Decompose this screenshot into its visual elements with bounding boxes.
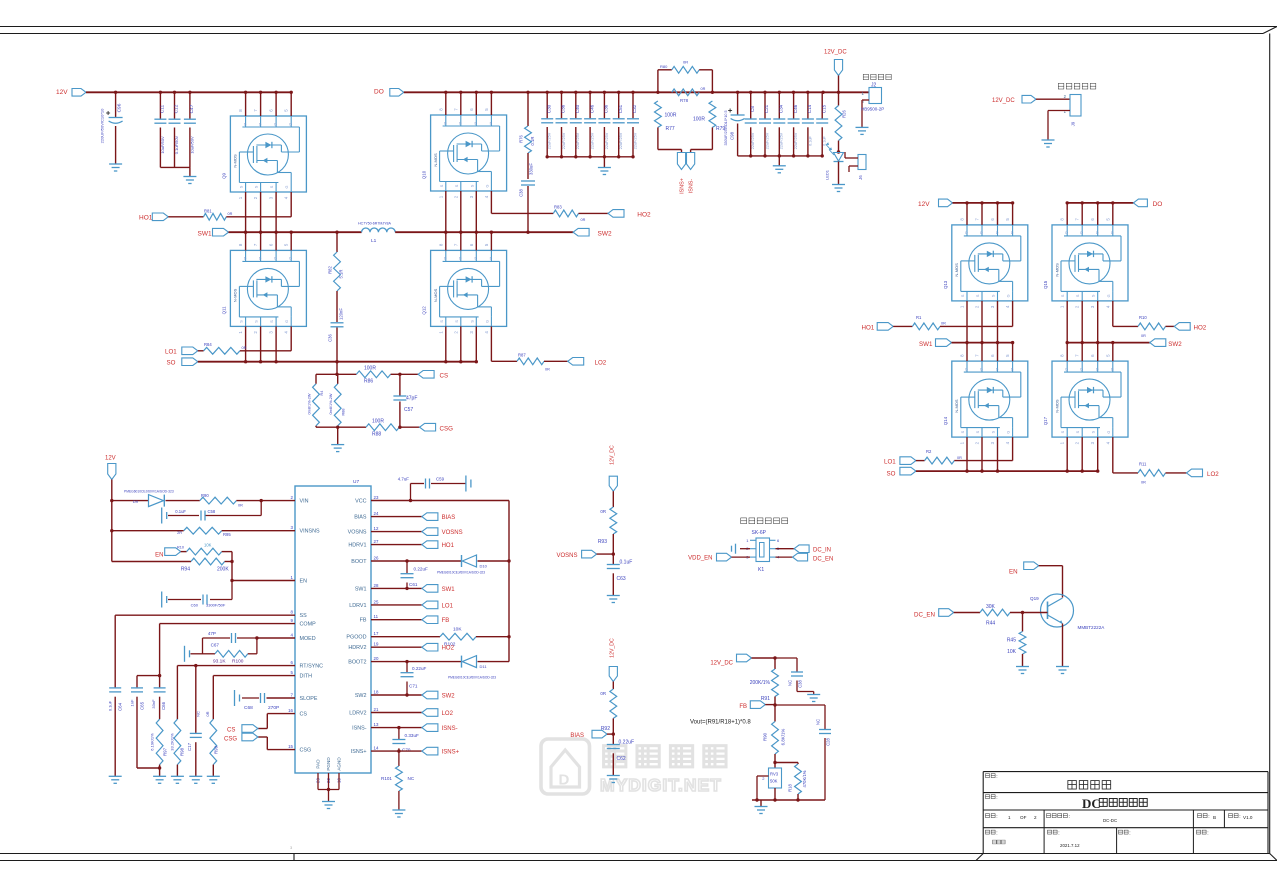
svg-text:12V_DC: 12V_DC <box>710 661 733 667</box>
svg-text:0.33uF: 0.33uF <box>405 733 419 738</box>
svg-text:C46: C46 <box>589 104 594 113</box>
svg-text:G: G <box>1107 431 1111 434</box>
svg-text:FB: FB <box>442 618 450 624</box>
svg-text:13: 13 <box>374 722 379 727</box>
svg-text:D: D <box>444 257 447 261</box>
svg-text:R11: R11 <box>1139 461 1147 466</box>
svg-text:C11: C11 <box>160 104 166 113</box>
svg-text:D: D <box>444 121 447 125</box>
svg-text:G: G <box>485 184 489 187</box>
svg-text:D: D <box>274 257 277 261</box>
svg-text:LO1: LO1 <box>442 603 454 609</box>
svg-text:C36: C36 <box>561 104 566 113</box>
svg-text:0R: 0R <box>242 346 247 350</box>
svg-text:R77: R77 <box>666 126 675 132</box>
svg-text:R78: R78 <box>680 98 689 103</box>
svg-text:V1.0: V1.0 <box>1243 815 1253 820</box>
svg-text:D: D <box>980 231 983 235</box>
svg-text:ISNS-: ISNS- <box>689 179 695 194</box>
svg-text:D: D <box>1065 231 1068 235</box>
svg-text:18: 18 <box>374 690 379 695</box>
svg-text:10K: 10K <box>204 543 212 548</box>
svg-text:0R: 0R <box>228 212 233 216</box>
svg-text:11: 11 <box>374 614 379 619</box>
svg-text:R80: R80 <box>660 64 668 69</box>
svg-text:VOSNS: VOSNS <box>556 553 577 559</box>
svg-text:0m8/1%-2W: 0m8/1%-2W <box>329 393 333 414</box>
svg-text:S: S <box>440 184 444 187</box>
svg-text:N-MOS: N-MOS <box>433 288 438 302</box>
svg-text:D: D <box>289 257 292 261</box>
svg-text:D: D <box>475 257 478 261</box>
svg-text:D11: D11 <box>480 664 488 669</box>
svg-text:14: 14 <box>374 746 379 751</box>
svg-text:LED1: LED1 <box>825 169 830 180</box>
svg-text:LO2: LO2 <box>1207 471 1219 478</box>
svg-text::: : <box>1129 831 1130 837</box>
svg-text:R90: R90 <box>201 493 209 498</box>
svg-text:R88: R88 <box>342 409 346 416</box>
svg-text:C51: C51 <box>618 104 623 113</box>
svg-text:0R: 0R <box>600 691 606 696</box>
svg-text:22uF/25V: 22uF/25V <box>605 132 609 149</box>
svg-text:23: 23 <box>374 495 379 500</box>
svg-text:N-MOS: N-MOS <box>233 154 238 168</box>
svg-text:R91: R91 <box>761 696 770 702</box>
svg-text:33nF: 33nF <box>151 699 156 709</box>
svg-text:SS: SS <box>300 613 308 619</box>
svg-text:R2: R2 <box>926 449 932 454</box>
svg-text:12: 12 <box>374 526 379 531</box>
svg-text:28: 28 <box>374 583 379 588</box>
svg-text:0R: 0R <box>941 322 946 326</box>
svg-text:CS: CS <box>227 728 235 734</box>
svg-text:C46: C46 <box>793 104 798 113</box>
svg-text:HO1: HO1 <box>862 325 875 332</box>
svg-text:0.22uF: 0.22uF <box>619 740 635 746</box>
svg-text:12V_DC: 12V_DC <box>610 638 616 658</box>
svg-text:D: D <box>459 121 462 125</box>
svg-text:47pF: 47pF <box>406 396 417 402</box>
svg-text:R4: R4 <box>320 391 324 396</box>
svg-text:J6: J6 <box>858 175 863 180</box>
svg-text:Vout=(R91/R18+1)*0.8: Vout=(R91/R18+1)*0.8 <box>690 720 751 726</box>
svg-text:Q11: Q11 <box>221 306 226 315</box>
svg-text:D: D <box>965 367 968 371</box>
svg-text:C12: C12 <box>174 104 180 113</box>
svg-text:C28: C28 <box>826 737 831 745</box>
svg-text:22uF/25V: 22uF/25V <box>780 132 784 149</box>
svg-text:SW2: SW2 <box>598 230 612 237</box>
svg-text:SW1: SW1 <box>919 341 933 348</box>
svg-text:ISNS-: ISNS- <box>352 726 367 732</box>
svg-text:D: D <box>490 257 493 261</box>
svg-text:C65: C65 <box>139 701 144 710</box>
svg-text:0R: 0R <box>581 218 586 222</box>
svg-text:VDD_EN: VDD_EN <box>688 556 712 562</box>
svg-text:BIAS: BIAS <box>570 733 584 739</box>
svg-text:S: S <box>1076 430 1080 433</box>
svg-text:CSG: CSG <box>300 748 312 754</box>
svg-text:SW2: SW2 <box>442 694 456 700</box>
svg-text:PMEG6010CEJ/60V/1A/SOD-323: PMEG6010CEJ/60V/1A/SOD-323 <box>124 490 174 494</box>
svg-text:D: D <box>1011 231 1014 235</box>
svg-text:Q10: Q10 <box>422 170 427 179</box>
svg-text:SO: SO <box>167 360 176 367</box>
svg-text:R100: R100 <box>232 659 244 665</box>
svg-text:30K: 30K <box>986 604 996 610</box>
svg-text:EN: EN <box>155 553 163 559</box>
svg-text:270P: 270P <box>268 705 279 711</box>
svg-text:22uF/25V: 22uF/25V <box>548 132 552 149</box>
svg-text:R98: R98 <box>180 747 185 756</box>
svg-text:PGOOD: PGOOD <box>346 635 366 641</box>
svg-text:50K: 50K <box>770 779 778 784</box>
svg-text:CS: CS <box>300 712 308 718</box>
svg-text:HO2: HO2 <box>1194 325 1207 332</box>
svg-text:C30: C30 <box>546 104 551 113</box>
svg-text:S: S <box>470 320 474 323</box>
svg-text:D: D <box>259 122 262 126</box>
svg-text:R10: R10 <box>177 546 184 550</box>
svg-text:C66: C66 <box>161 701 166 710</box>
svg-text:Q9: Q9 <box>221 173 226 179</box>
svg-text:NC: NC <box>196 711 201 717</box>
svg-text:2: 2 <box>1034 815 1037 820</box>
svg-text:R82: R82 <box>328 265 333 273</box>
svg-text:93.1K: 93.1K <box>213 659 226 665</box>
svg-text:VCC: VCC <box>355 499 366 505</box>
svg-text:FB: FB <box>739 704 747 710</box>
svg-text:22uF/25V: 22uF/25V <box>765 132 769 149</box>
svg-text:PGND: PGND <box>326 757 331 771</box>
svg-text:20: 20 <box>374 656 379 661</box>
svg-text:S: S <box>1076 294 1080 297</box>
svg-text::: : <box>996 831 997 837</box>
svg-text:D: D <box>1111 231 1114 235</box>
svg-text:HB9500-2P: HB9500-2P <box>861 107 884 112</box>
svg-text:C21: C21 <box>764 104 769 113</box>
svg-text:0R: 0R <box>683 60 688 65</box>
svg-text:D: D <box>980 367 983 371</box>
svg-text:6.19K/1%: 6.19K/1% <box>150 733 155 751</box>
svg-text:0R: 0R <box>600 509 606 514</box>
svg-text:C96: C96 <box>117 103 123 112</box>
svg-text:100R: 100R <box>665 113 677 119</box>
svg-text:G: G <box>1007 294 1011 297</box>
svg-text:S: S <box>455 184 459 187</box>
svg-text:D: D <box>965 231 968 235</box>
svg-text:12V_DC: 12V_DC <box>610 445 616 465</box>
svg-text:C68: C68 <box>244 705 253 711</box>
svg-text:S: S <box>961 430 965 433</box>
svg-text:DO: DO <box>1153 201 1163 208</box>
svg-text:SW1: SW1 <box>355 586 367 592</box>
svg-text:S: S <box>1092 430 1096 433</box>
svg-text:VIN: VIN <box>300 499 309 505</box>
svg-text:LO1: LO1 <box>165 349 177 356</box>
svg-text:C57: C57 <box>404 407 413 413</box>
svg-text:D: D <box>1011 367 1014 371</box>
svg-text:C62: C62 <box>617 756 626 762</box>
svg-text:D: D <box>996 231 999 235</box>
svg-text:R45: R45 <box>1007 638 1016 644</box>
svg-text:D: D <box>996 367 999 371</box>
svg-text:C15: C15 <box>821 104 826 113</box>
svg-text:C67: C67 <box>211 643 220 648</box>
svg-text:4.7uF: 4.7uF <box>398 477 410 482</box>
svg-text:LDRV2: LDRV2 <box>349 711 366 717</box>
svg-text:22uF/25V: 22uF/25V <box>751 132 755 149</box>
svg-text:12V: 12V <box>56 89 68 96</box>
svg-text:C38: C38 <box>798 679 803 687</box>
svg-text:CS: CS <box>440 372 449 379</box>
svg-text:S: S <box>470 184 474 187</box>
svg-text:2021.7.12: 2021.7.12 <box>1060 843 1080 848</box>
svg-text:0R: 0R <box>701 87 706 91</box>
svg-text:5.1R: 5.1R <box>339 270 344 279</box>
svg-text:25: 25 <box>374 599 379 604</box>
svg-text:S: S <box>455 320 459 323</box>
svg-text:R26: R26 <box>842 109 847 117</box>
svg-text:EN: EN <box>300 579 308 585</box>
svg-text:NC: NC <box>816 719 821 725</box>
svg-text:330uF: 330uF <box>529 163 534 175</box>
svg-text:R94: R94 <box>181 567 190 573</box>
svg-text:16: 16 <box>288 708 293 713</box>
svg-text:D: D <box>1096 367 1099 371</box>
svg-text:G: G <box>285 185 289 188</box>
svg-text:MMBT2222A: MMBT2222A <box>1078 625 1106 630</box>
svg-text:HDRV2: HDRV2 <box>348 645 366 651</box>
svg-text:CSG: CSG <box>224 737 237 743</box>
svg-text:J9: J9 <box>1071 121 1076 126</box>
svg-text:R101: R101 <box>381 776 392 781</box>
svg-text:R76: R76 <box>519 134 524 142</box>
svg-text::: : <box>1239 814 1240 820</box>
svg-text:D: D <box>1080 231 1083 235</box>
svg-text:N-MOS: N-MOS <box>954 399 959 413</box>
svg-text:330UF/25V/D10*10.5: 330UF/25V/D10*10.5 <box>724 110 728 145</box>
svg-text:S: S <box>961 294 965 297</box>
svg-text:0.1uF: 0.1uF <box>108 700 113 711</box>
svg-text:C14: C14 <box>807 104 812 113</box>
svg-text:0.22uF: 0.22uF <box>412 666 426 671</box>
svg-text:C36: C36 <box>604 104 609 113</box>
svg-text:S: S <box>1061 430 1065 433</box>
svg-text:0R: 0R <box>238 504 243 508</box>
svg-text:D: D <box>1096 231 1099 235</box>
svg-text:0.1R: 0.1R <box>530 137 535 146</box>
svg-text:ISNS+: ISNS+ <box>442 750 460 756</box>
svg-text:220UF/50V/C10*10: 220UF/50V/C10*10 <box>100 108 105 143</box>
svg-text:15: 15 <box>288 744 293 749</box>
svg-text:R1: R1 <box>916 315 922 320</box>
svg-text:0.1uF: 0.1uF <box>808 135 812 145</box>
svg-text:SW2: SW2 <box>1168 341 1182 348</box>
svg-text:SO: SO <box>887 470 896 477</box>
svg-text:D: D <box>244 122 247 126</box>
svg-text:S: S <box>976 430 980 433</box>
svg-text:R83: R83 <box>554 205 562 210</box>
svg-text:D: D <box>1065 367 1068 371</box>
svg-text:ISNS-: ISNS- <box>442 726 458 732</box>
svg-text:SW2: SW2 <box>355 693 367 699</box>
svg-text:R88: R88 <box>372 432 381 438</box>
svg-text:33.2K/1%: 33.2K/1% <box>170 733 175 751</box>
svg-text:Q15: Q15 <box>1043 280 1048 289</box>
svg-text:VOSNS: VOSNS <box>348 530 367 536</box>
svg-text:VINSNS: VINSNS <box>300 529 320 535</box>
svg-text:2R: 2R <box>177 531 182 535</box>
svg-text:R87: R87 <box>518 352 526 357</box>
svg-text:10K: 10K <box>453 627 462 633</box>
svg-text::: : <box>1207 831 1208 837</box>
svg-text:0R: 0R <box>1141 334 1146 338</box>
svg-text:17: 17 <box>374 631 379 636</box>
svg-text:S: S <box>992 294 996 297</box>
svg-text:C64: C64 <box>118 702 123 711</box>
svg-text:19: 19 <box>374 642 379 647</box>
svg-text:C34: C34 <box>779 104 784 113</box>
svg-text:C58: C58 <box>208 509 216 514</box>
svg-text:Q12: Q12 <box>422 306 427 315</box>
svg-text:1: 1 <box>1008 815 1011 820</box>
svg-text::: : <box>1208 814 1209 820</box>
svg-text:D: D <box>244 257 247 261</box>
svg-text:C61: C61 <box>409 582 418 587</box>
svg-text:BOOT: BOOT <box>351 559 367 565</box>
svg-text:D: D <box>1111 367 1114 371</box>
svg-text:ISNS+: ISNS+ <box>351 749 367 755</box>
svg-text:SK-6P: SK-6P <box>752 530 767 536</box>
svg-text:D: D <box>459 257 462 261</box>
svg-text:26: 26 <box>374 556 379 561</box>
svg-text:0R: 0R <box>957 456 962 460</box>
svg-text:27: 27 <box>374 539 379 544</box>
svg-text:C47: C47 <box>189 104 195 113</box>
svg-text:10K: 10K <box>1007 649 1017 655</box>
svg-text:R93: R93 <box>598 539 607 545</box>
svg-text:C71: C71 <box>409 684 418 689</box>
svg-text:G: G <box>285 320 289 323</box>
svg-text:HO1: HO1 <box>139 214 153 221</box>
svg-text:HO2: HO2 <box>637 211 651 218</box>
svg-text:0R: 0R <box>1141 480 1146 484</box>
svg-text:PMEG6010CEJ/60V/1A/SOD-323: PMEG6010CEJ/60V/1A/SOD-323 <box>448 676 496 680</box>
svg-text:S: S <box>440 320 444 323</box>
svg-text:C17: C17 <box>187 742 192 751</box>
svg-text:22uF/25V: 22uF/25V <box>576 132 580 149</box>
svg-text::: : <box>996 814 997 820</box>
svg-text:3300F/50F: 3300F/50F <box>206 603 226 608</box>
svg-text::: : <box>996 774 997 780</box>
svg-text:DO: DO <box>374 89 384 96</box>
svg-text:R90: R90 <box>763 732 768 741</box>
svg-text:S: S <box>1061 294 1065 297</box>
svg-text:NC: NC <box>408 776 415 781</box>
svg-text:R18: R18 <box>788 783 793 791</box>
svg-text:OF: OF <box>1020 815 1027 820</box>
svg-text:N-MOS: N-MOS <box>233 288 238 302</box>
svg-text:0.1uF: 0.1uF <box>620 560 633 566</box>
svg-text:22uF/25V: 22uF/25V <box>562 132 566 149</box>
svg-text:D10: D10 <box>480 564 488 569</box>
svg-text:COMP: COMP <box>300 622 317 628</box>
svg-text:R84: R84 <box>204 342 212 347</box>
svg-text:SLOPE: SLOPE <box>300 696 318 702</box>
svg-text:VOSNS: VOSNS <box>442 530 463 536</box>
svg-text:Q14: Q14 <box>943 416 948 425</box>
svg-text:R44: R44 <box>986 621 995 627</box>
svg-text:D: D <box>559 772 570 789</box>
svg-text:D: D <box>289 122 292 126</box>
svg-text:Q13: Q13 <box>943 280 948 289</box>
svg-text:C60: C60 <box>191 603 199 608</box>
svg-text:Q17: Q17 <box>1043 416 1048 425</box>
svg-text:SW1: SW1 <box>198 230 212 237</box>
svg-text:N-MOS: N-MOS <box>433 153 438 167</box>
svg-text:HO2: HO2 <box>442 646 455 652</box>
svg-text:N-MOS: N-MOS <box>1054 399 1059 413</box>
svg-text:G: G <box>1007 431 1011 434</box>
svg-text:C8: C8 <box>750 106 755 112</box>
svg-text:D: D <box>1080 367 1083 371</box>
svg-text:DC_EN: DC_EN <box>914 612 935 619</box>
svg-text:CSG: CSG <box>440 425 454 432</box>
svg-text:0.1uF: 0.1uF <box>175 509 186 514</box>
svg-text:R86: R86 <box>364 379 373 385</box>
svg-text:LO2: LO2 <box>595 359 607 366</box>
svg-text:NC: NC <box>788 680 793 686</box>
svg-text:BIAS: BIAS <box>354 515 367 521</box>
svg-text:21: 21 <box>374 707 379 712</box>
svg-text:R97: R97 <box>163 747 168 756</box>
svg-text:PMEG6010CEJ/60V/1A/SOD-323: PMEG6010CEJ/60V/1A/SOD-323 <box>437 571 485 575</box>
svg-text:N-MOS: N-MOS <box>1054 263 1059 277</box>
svg-text:22uF/25V: 22uF/25V <box>633 132 637 149</box>
svg-text:S: S <box>1092 294 1096 297</box>
svg-text:SW1: SW1 <box>442 587 456 593</box>
svg-text:HDRV1: HDRV1 <box>348 543 366 549</box>
svg-text:0.22uF: 0.22uF <box>414 567 428 572</box>
svg-text:D: D <box>490 121 493 125</box>
svg-text:0.1uF/50V: 0.1uF/50V <box>174 135 179 154</box>
svg-text:L1: L1 <box>371 238 377 244</box>
svg-text:HO1: HO1 <box>442 543 455 549</box>
svg-text:LDRV1: LDRV1 <box>349 603 366 609</box>
svg-text:C32: C32 <box>632 104 637 113</box>
svg-text:C59: C59 <box>436 477 445 482</box>
svg-text:Q19: Q19 <box>1030 596 1039 601</box>
svg-text:470K/1%: 470K/1% <box>802 770 807 787</box>
svg-text:10uF/50V: 10uF/50V <box>189 136 194 154</box>
svg-text:100R: 100R <box>364 366 376 372</box>
svg-text:22uF/25V: 22uF/25V <box>794 132 798 149</box>
svg-text:10uF/50V: 10uF/50V <box>160 136 165 154</box>
svg-text:22uF/25V: 22uF/25V <box>591 132 595 149</box>
svg-text::: : <box>996 795 997 801</box>
svg-text:RT/SYNC: RT/SYNC <box>300 664 324 670</box>
svg-text:DC-DC: DC-DC <box>1103 818 1117 823</box>
svg-text:D9: D9 <box>133 499 139 504</box>
svg-text::: : <box>1058 831 1059 837</box>
svg-text:1nF: 1nF <box>129 699 134 706</box>
svg-text:B: B <box>1213 815 1216 820</box>
svg-text:47P: 47P <box>208 631 216 636</box>
svg-text:RV3: RV3 <box>770 772 779 777</box>
svg-text:C38: C38 <box>519 188 524 196</box>
